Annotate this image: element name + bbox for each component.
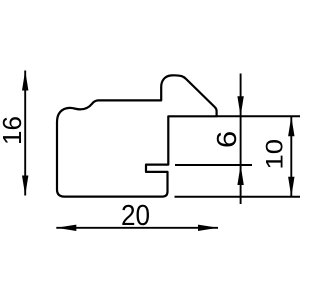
extension line rabbet floor right	[217, 115, 300, 117]
moulding profile outline	[57, 75, 217, 196]
dimension 6 arrow down	[237, 96, 243, 116]
svg-text:16: 16	[0, 116, 27, 145]
svg-text:10: 10	[262, 139, 288, 170]
dimension 6 arrow up	[237, 165, 243, 185]
dimension 10 arrow down	[288, 177, 294, 197]
extension line notch level	[175, 164, 252, 166]
dimension 10 line	[290, 116, 292, 197]
dimension 16 arrow up	[22, 71, 28, 91]
svg-text:20: 20	[121, 199, 150, 232]
dimension 16 arrow down	[22, 176, 28, 196]
dimension 20 line	[56, 227, 218, 229]
dimension 20 arrow left	[56, 225, 76, 231]
dimension 16 line	[24, 71, 26, 196]
dimension 20 arrow right	[198, 225, 218, 231]
extension line bottom right	[175, 196, 301, 198]
dimension 10 arrow up	[288, 116, 294, 136]
dimension 6 line	[240, 74, 242, 205]
svg-text:6: 6	[211, 131, 242, 148]
